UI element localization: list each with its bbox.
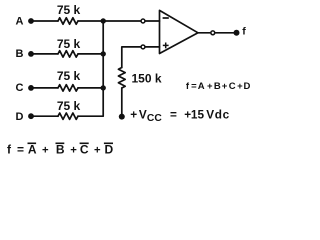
svg-text:75 k: 75 k (57, 37, 81, 51)
terminal circle non-inverting input (141, 45, 145, 49)
junction dot bus row B (101, 51, 106, 56)
node dot input B (28, 51, 34, 57)
wire op-amp output to circle (198, 32, 210, 34)
node dot input C (28, 85, 34, 91)
svg-text:A: A (16, 15, 24, 27)
op-amp U1 triangle (160, 10, 199, 53)
wire non-inverting node to 150k branch (122, 47, 141, 68)
wire input C (31, 87, 58, 89)
svg-text:150 k: 150 k (132, 71, 162, 85)
terminal circle output (211, 31, 215, 35)
svg-text:f: f (242, 25, 246, 37)
overbar D (104, 142, 113, 144)
svg-text:f=A+B+C+D: f=A+B+C+D (7, 142, 114, 156)
wire bus to inverting input (103, 20, 140, 22)
svg-text:f=A+B+C+D: f=A+B+C+D (186, 81, 251, 92)
svg-text:75 k: 75 k (57, 3, 81, 17)
resistor R5 150k (vertical) (118, 68, 125, 89)
svg-text:B: B (16, 48, 24, 60)
node dot input D (28, 113, 34, 119)
svg-text:D: D (16, 111, 24, 123)
node dot input A (28, 18, 34, 24)
overbar B (56, 142, 65, 144)
svg-text:C: C (16, 82, 24, 94)
wire R2 to bus (78, 53, 103, 55)
svg-text:75 k: 75 k (57, 99, 81, 113)
overbar C (80, 142, 89, 144)
node dot output f (234, 30, 240, 36)
svg-text:75 k: 75 k (57, 69, 81, 83)
node dot VCC (119, 114, 125, 120)
resistor R1 75k (input A) (58, 18, 78, 24)
op-amp plus marker (163, 43, 169, 49)
resistor R3 75k (input C) (58, 85, 78, 91)
junction dot bus row A (101, 18, 106, 23)
resistor R4 75k (input D) (58, 113, 78, 119)
op-amp minus marker (163, 17, 169, 19)
wire input D (31, 115, 58, 117)
wire R4 to bus corner (78, 21, 103, 116)
wire output circle to node f (215, 32, 236, 34)
wire input B (31, 53, 58, 55)
wire input A (31, 20, 58, 22)
terminal circle inverting input (141, 19, 145, 23)
equation f = not A + not B + not C + not D (7, 142, 114, 156)
wire R5 to VCC dot (121, 88, 123, 116)
overbar A (28, 142, 37, 144)
wire inverting circle to op-amp (146, 20, 160, 22)
wire R1 to bus (78, 20, 103, 22)
junction dot bus row C (101, 85, 106, 90)
wire R3 to bus (78, 87, 103, 89)
wire non-inverting circle to op-amp (146, 46, 160, 48)
resistor R2 75k (input B) (58, 51, 78, 57)
